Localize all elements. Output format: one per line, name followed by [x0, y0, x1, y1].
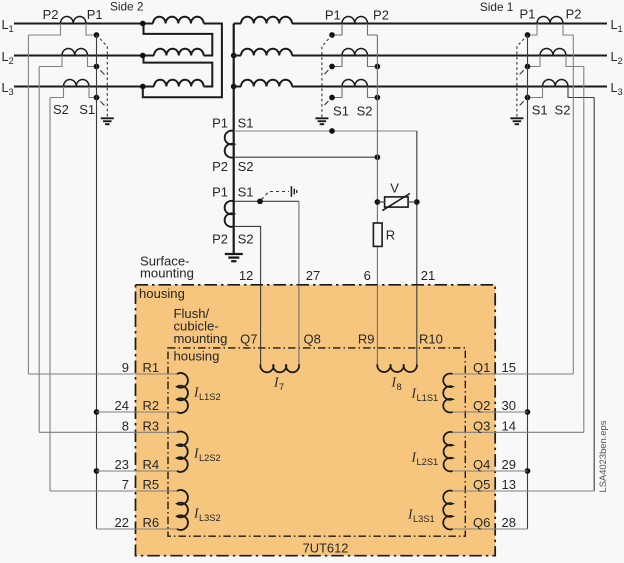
svg-text:L2S2: L2S2 — [199, 453, 221, 463]
svg-text:8: 8 — [397, 382, 402, 392]
svg-text:R1: R1 — [143, 360, 160, 375]
svg-text:30: 30 — [502, 398, 516, 413]
svg-text:13: 13 — [502, 477, 516, 492]
svg-text:14: 14 — [502, 418, 516, 433]
svg-text:12: 12 — [239, 268, 253, 283]
svg-text:R: R — [386, 227, 395, 242]
svg-text:housing: housing — [139, 286, 185, 301]
svg-text:S2: S2 — [53, 102, 69, 117]
svg-text:Q1: Q1 — [473, 360, 490, 375]
svg-text:7: 7 — [279, 382, 284, 392]
svg-text:S1: S1 — [532, 103, 548, 118]
svg-text:29: 29 — [502, 457, 516, 472]
svg-text:15: 15 — [502, 360, 516, 375]
svg-text:R6: R6 — [143, 515, 160, 530]
svg-text:S2: S2 — [357, 104, 373, 119]
svg-text:P1: P1 — [212, 185, 228, 200]
svg-text:Q4: Q4 — [473, 457, 490, 472]
svg-text:Q5: Q5 — [473, 477, 490, 492]
svg-text:6: 6 — [364, 268, 371, 283]
svg-text:L3S1: L3S1 — [413, 514, 435, 524]
svg-text:S2: S2 — [238, 232, 254, 247]
svg-text:Q8: Q8 — [304, 331, 321, 346]
svg-text:S1: S1 — [79, 102, 95, 117]
svg-text:28: 28 — [502, 515, 516, 530]
svg-text:S1: S1 — [238, 115, 254, 130]
svg-text:L1S2: L1S2 — [199, 392, 221, 402]
svg-text:R4: R4 — [143, 457, 160, 472]
svg-text:P2: P2 — [212, 159, 228, 174]
svg-text:23: 23 — [115, 457, 129, 472]
svg-text:P2: P2 — [212, 232, 228, 247]
svg-text:P1: P1 — [325, 8, 341, 23]
svg-text:R10: R10 — [419, 331, 443, 346]
svg-text:S2: S2 — [238, 159, 254, 174]
svg-text:9: 9 — [122, 360, 129, 375]
svg-text:Q7: Q7 — [240, 331, 257, 346]
svg-text:R3: R3 — [143, 418, 160, 433]
svg-text:8: 8 — [122, 418, 129, 433]
svg-text:L1S1: L1S1 — [417, 393, 439, 403]
svg-text:P1: P1 — [519, 7, 535, 22]
svg-text:R2: R2 — [143, 398, 160, 413]
svg-text:mounting: mounting — [140, 265, 194, 280]
svg-text:24: 24 — [115, 398, 129, 413]
svg-text:P2: P2 — [43, 7, 59, 22]
svg-text:Side 1: Side 1 — [480, 0, 513, 14]
svg-text:27: 27 — [306, 268, 320, 283]
svg-text:P2: P2 — [566, 7, 582, 22]
svg-text:7: 7 — [122, 477, 129, 492]
svg-text:R9: R9 — [358, 331, 375, 346]
svg-text:P1: P1 — [87, 7, 103, 22]
svg-text:S2: S2 — [555, 103, 571, 118]
svg-text:Side 2: Side 2 — [110, 0, 143, 13]
svg-text:housing: housing — [174, 348, 220, 363]
svg-text:Q3: Q3 — [473, 418, 490, 433]
svg-text:P2: P2 — [373, 8, 389, 23]
svg-text:LSA4023ben.eps: LSA4023ben.eps — [597, 420, 608, 492]
svg-text:Q6: Q6 — [473, 515, 490, 530]
svg-text:S1: S1 — [333, 104, 349, 119]
svg-text:V: V — [390, 180, 399, 195]
svg-text:L3S2: L3S2 — [199, 513, 221, 523]
svg-text:Q2: Q2 — [473, 398, 490, 413]
svg-text:S1: S1 — [238, 185, 254, 200]
svg-text:mounting: mounting — [174, 331, 228, 346]
svg-text:P1: P1 — [212, 115, 228, 130]
svg-text:L2S1: L2S1 — [417, 457, 439, 467]
svg-text:21: 21 — [421, 268, 435, 283]
svg-text:7UT612: 7UT612 — [303, 541, 349, 556]
svg-text:22: 22 — [115, 515, 129, 530]
svg-text:R5: R5 — [143, 477, 160, 492]
